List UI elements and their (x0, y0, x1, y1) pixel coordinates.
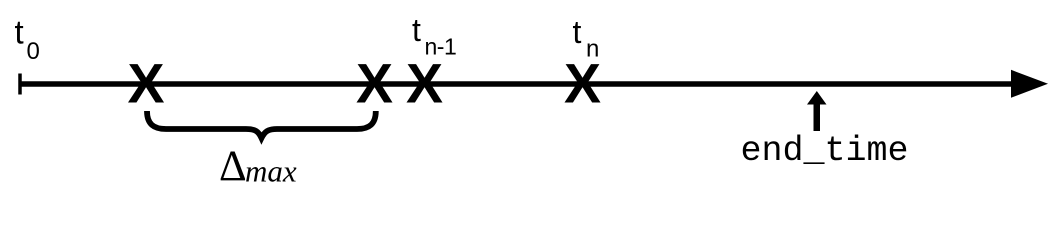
svg-text:X: X (356, 53, 393, 115)
start tick t0 (18, 74, 22, 95)
svg-text:t: t (15, 13, 24, 50)
brace under delta max interval (147, 111, 376, 138)
end_time pointer arrow (814, 102, 821, 131)
svg-text:X: X (564, 53, 601, 115)
svg-text:end_time: end_time (741, 131, 909, 171)
svg-text:X: X (406, 53, 443, 115)
svg-text:X: X (127, 53, 164, 115)
svg-text:t: t (412, 12, 421, 48)
svg-text:Δ: Δ (219, 143, 247, 190)
svg-text:max: max (245, 154, 297, 189)
svg-text:t: t (573, 14, 582, 50)
arrowhead at end of timeline (1011, 70, 1048, 98)
svg-text:0: 0 (27, 38, 40, 65)
timeline axis wire (20, 81, 1014, 87)
